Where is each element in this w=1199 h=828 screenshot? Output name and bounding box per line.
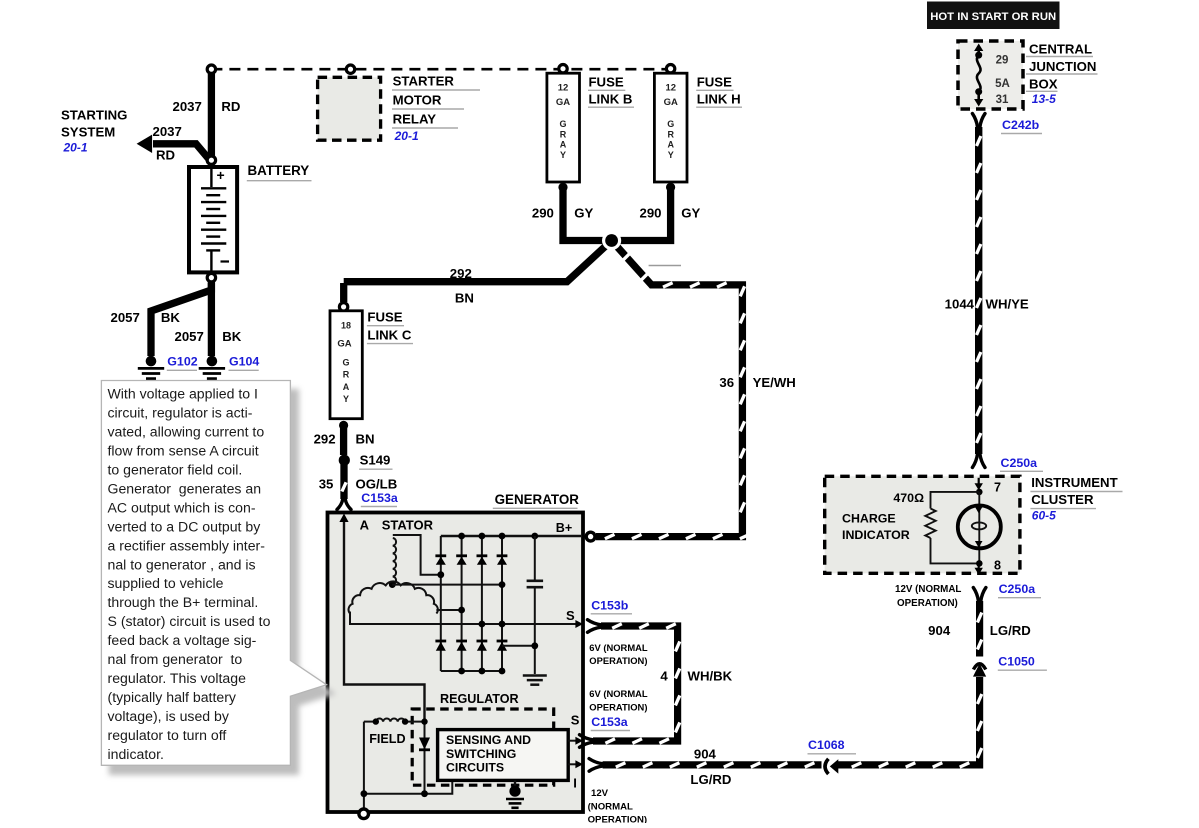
svg-text:to generator field coil.: to generator field coil. <box>108 462 243 478</box>
svg-text:nal from generator to: nal from generator to <box>108 651 243 667</box>
svg-text:OPERATION): OPERATION) <box>897 598 958 609</box>
svg-text:FIELD: FIELD <box>369 732 405 746</box>
svg-text:+: + <box>217 167 225 183</box>
svg-text:C153b: C153b <box>591 598 629 612</box>
svg-text:20-1: 20-1 <box>394 129 419 143</box>
svg-text:6V (NORMAL: 6V (NORMAL <box>589 688 648 699</box>
svg-text:290: 290 <box>640 206 662 221</box>
svg-text:a rectifier assembly inter-: a rectifier assembly inter- <box>108 537 266 553</box>
svg-text:2037: 2037 <box>173 99 202 114</box>
svg-text:SYSTEM: SYSTEM <box>61 125 115 140</box>
svg-text:290: 290 <box>532 206 554 221</box>
svg-text:C1068: C1068 <box>808 738 845 752</box>
svg-text:FUSE: FUSE <box>367 310 402 325</box>
svg-text:GENERATOR: GENERATOR <box>495 492 580 507</box>
svg-text:Y: Y <box>343 394 349 404</box>
svg-text:Y: Y <box>668 150 674 160</box>
svg-text:R: R <box>560 129 567 139</box>
svg-text:BOX: BOX <box>1029 76 1058 91</box>
svg-text:LG/RD: LG/RD <box>690 772 731 787</box>
svg-text:904: 904 <box>694 747 717 762</box>
svg-text:CENTRAL: CENTRAL <box>1029 42 1092 57</box>
svg-text:Generator generates an: Generator generates an <box>108 480 262 496</box>
svg-text:BATTERY: BATTERY <box>248 163 310 178</box>
svg-text:S (stator) circuit is used to: S (stator) circuit is used to <box>108 613 271 629</box>
svg-text:29: 29 <box>996 54 1009 66</box>
svg-text:nal to generator , and is: nal to generator , and is <box>108 556 256 572</box>
svg-text:5A: 5A <box>995 78 1010 90</box>
svg-text:(NORMAL: (NORMAL <box>588 802 633 813</box>
svg-text:REGULATOR: REGULATOR <box>440 692 519 706</box>
svg-text:B+: B+ <box>556 521 572 535</box>
svg-text:through the B+ terminal.: through the B+ terminal. <box>108 594 259 610</box>
svg-text:R: R <box>668 129 675 139</box>
svg-text:GY: GY <box>574 206 593 221</box>
svg-text:LINK H: LINK H <box>697 91 741 106</box>
svg-text:4: 4 <box>660 669 668 684</box>
svg-text:904: 904 <box>928 623 951 638</box>
svg-text:2037: 2037 <box>153 124 182 139</box>
svg-text:2057: 2057 <box>111 310 140 325</box>
svg-text:GY: GY <box>681 206 700 221</box>
svg-text:G104: G104 <box>229 355 259 369</box>
svg-text:S: S <box>566 608 575 623</box>
svg-text:60-5: 60-5 <box>1032 509 1056 523</box>
svg-text:C1050: C1050 <box>998 654 1035 668</box>
svg-text:13-5: 13-5 <box>1032 92 1056 106</box>
svg-text:C250a: C250a <box>999 582 1036 596</box>
svg-text:FUSE: FUSE <box>589 75 624 90</box>
svg-text:S: S <box>571 713 580 728</box>
svg-text:36: 36 <box>719 375 734 390</box>
svg-text:RELAY: RELAY <box>393 112 437 127</box>
svg-text:CHARGE: CHARGE <box>842 512 896 526</box>
svg-text:A: A <box>343 382 350 392</box>
svg-text:7: 7 <box>994 480 1001 494</box>
svg-text:FUSE: FUSE <box>697 75 732 90</box>
svg-text:LINK B: LINK B <box>589 91 633 106</box>
svg-text:feed back a voltage sig-: feed back a voltage sig- <box>108 632 257 648</box>
svg-text:G: G <box>667 119 674 129</box>
svg-text:OPERATION): OPERATION) <box>588 814 648 823</box>
svg-text:6V (NORMAL: 6V (NORMAL <box>589 642 648 653</box>
svg-text:circuit, regulator is acti-: circuit, regulator is acti- <box>108 405 253 421</box>
svg-text:vated, allowing current to: vated, allowing current to <box>108 424 265 440</box>
svg-text:regulator to turn off: regulator to turn off <box>108 727 227 743</box>
svg-text:LINK C: LINK C <box>367 327 411 342</box>
svg-text:flow from sense A circuit: flow from sense A circuit <box>108 443 259 459</box>
svg-text:R: R <box>343 370 350 380</box>
svg-text:BK: BK <box>222 329 242 344</box>
svg-text:G: G <box>342 358 349 368</box>
svg-text:STARTING: STARTING <box>61 108 127 123</box>
svg-text:C153a: C153a <box>361 491 398 505</box>
svg-text:STATOR: STATOR <box>382 518 434 533</box>
svg-text:CIRCUITS: CIRCUITS <box>446 760 504 774</box>
svg-text:S149: S149 <box>360 453 391 468</box>
svg-text:20-1: 20-1 <box>63 141 88 155</box>
svg-text:LG/RD: LG/RD <box>990 623 1031 638</box>
svg-text:OPERATION): OPERATION) <box>589 701 647 712</box>
svg-text:12: 12 <box>558 83 569 94</box>
svg-text:CLUSTER: CLUSTER <box>1031 492 1094 507</box>
svg-text:BN: BN <box>455 291 474 306</box>
svg-text:AC output which is con-: AC output which is con- <box>108 499 256 515</box>
svg-text:BN: BN <box>356 432 375 447</box>
svg-text:STARTER: STARTER <box>393 74 455 89</box>
svg-text:HOT IN START OR RUN: HOT IN START OR RUN <box>930 11 1056 23</box>
svg-text:12: 12 <box>666 83 677 94</box>
svg-text:SWITCHING: SWITCHING <box>446 747 516 761</box>
svg-text:(typically half battery: (typically half battery <box>108 689 237 705</box>
svg-text:292: 292 <box>314 432 336 447</box>
svg-text:A: A <box>668 140 675 150</box>
svg-text:GA: GA <box>337 339 351 350</box>
svg-text:JUNCTION: JUNCTION <box>1029 59 1096 74</box>
svg-text:BK: BK <box>161 310 181 325</box>
svg-text:2057: 2057 <box>175 329 204 344</box>
svg-text:35: 35 <box>319 477 334 492</box>
svg-text:INSTRUMENT: INSTRUMENT <box>1031 475 1117 490</box>
svg-text:Y: Y <box>560 150 566 160</box>
svg-text:G102: G102 <box>167 355 197 369</box>
svg-text:C153a: C153a <box>591 715 628 729</box>
svg-text:12V: 12V <box>591 788 609 799</box>
svg-text:31: 31 <box>996 94 1009 106</box>
svg-text:OPERATION): OPERATION) <box>589 655 647 666</box>
svg-text:INDICATOR: INDICATOR <box>842 528 910 542</box>
svg-text:supplied to vehicle: supplied to vehicle <box>108 575 224 591</box>
svg-text:indicator.: indicator. <box>108 746 164 762</box>
svg-text:RD: RD <box>221 99 240 114</box>
svg-text:G: G <box>559 119 566 129</box>
svg-text:A: A <box>360 518 370 533</box>
svg-text:12V (NORMAL: 12V (NORMAL <box>895 584 961 595</box>
svg-text:I: I <box>573 776 577 791</box>
svg-text:292: 292 <box>450 266 472 281</box>
svg-text:verted to a DC output by: verted to a DC output by <box>108 518 262 534</box>
svg-text:1044: 1044 <box>945 297 975 312</box>
svg-text:regulator. This voltage: regulator. This voltage <box>108 670 247 686</box>
svg-text:WH/YE: WH/YE <box>986 297 1029 312</box>
svg-text:With voltage applied to I: With voltage applied to I <box>108 386 258 402</box>
svg-text:A: A <box>560 140 567 150</box>
svg-text:voltage), is used by: voltage), is used by <box>108 708 230 724</box>
svg-text:GA: GA <box>664 97 678 108</box>
svg-text:YE/WH: YE/WH <box>753 375 796 390</box>
svg-text:C250a: C250a <box>1001 456 1038 470</box>
svg-text:470Ω: 470Ω <box>893 491 924 505</box>
svg-text:C242b: C242b <box>1002 118 1040 132</box>
svg-text:OG/LB: OG/LB <box>356 477 398 492</box>
svg-text:GA: GA <box>556 97 570 108</box>
svg-text:SENSING AND: SENSING AND <box>446 733 531 747</box>
svg-text:8: 8 <box>994 558 1001 572</box>
svg-text:MOTOR: MOTOR <box>393 93 442 108</box>
svg-text:WH/BK: WH/BK <box>688 669 733 684</box>
svg-text:18: 18 <box>341 321 351 331</box>
svg-text:RD: RD <box>156 148 175 163</box>
